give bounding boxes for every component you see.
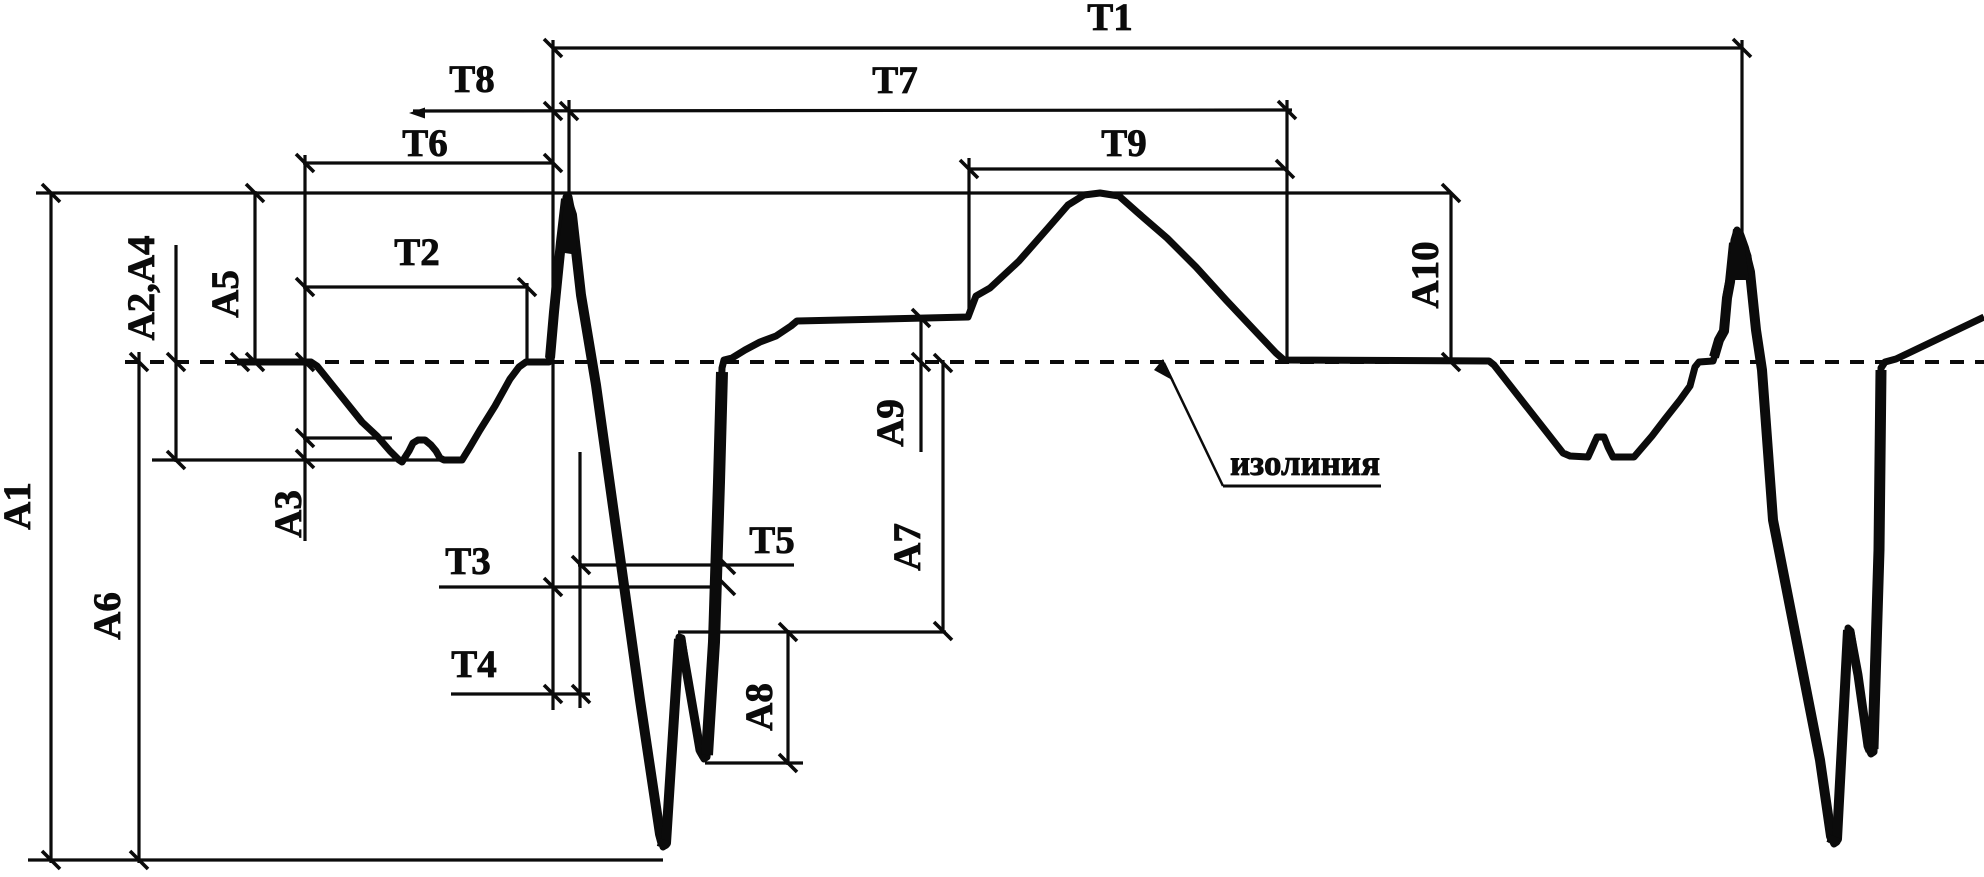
tick trace start <box>231 353 249 371</box>
labels rotated <box>0 235 1447 730</box>
extension line T2 right x=527 <box>525 283 528 359</box>
thick overlay: R1 upstroke <box>550 199 566 358</box>
svg-text:Т5: Т5 <box>749 519 795 562</box>
tick A10 <box>1442 184 1460 202</box>
tick T2 ends <box>296 278 314 296</box>
tick T4 ends <box>544 685 562 703</box>
dimension line A2,A4 <box>174 245 177 462</box>
dimension line T3 <box>439 585 710 588</box>
thick overlay: S1 rise to R' <box>664 639 679 845</box>
tick T1 right <box>1733 39 1751 57</box>
svg-text:Т9: Т9 <box>1101 122 1147 165</box>
svg-text:изолиния: изолиния <box>1230 443 1380 483</box>
tick A6 top & bottom <box>130 353 148 371</box>
dimension line A9 <box>919 317 922 452</box>
dimension line A5 <box>253 191 256 364</box>
tick T3 ends <box>544 578 562 596</box>
tick A9 <box>912 309 930 327</box>
svg-text:А10: А10 <box>1404 241 1447 308</box>
svg-text:Т3: Т3 <box>445 540 491 583</box>
bottom reference line <box>28 858 663 861</box>
dimension line A6 <box>137 352 140 863</box>
svg-text:Т1: Т1 <box>1087 0 1133 39</box>
dimension line A8 <box>786 630 789 765</box>
dimension line T6 <box>303 161 553 164</box>
leader underline <box>1223 485 1381 488</box>
dimension line A10 <box>1449 193 1452 360</box>
svg-text:Т8: Т8 <box>449 58 495 101</box>
reference line A8 top / A7 bottom <box>678 630 946 633</box>
dimension line T4 <box>451 692 590 695</box>
reference line A3 notch level <box>303 436 392 439</box>
svg-text:А7: А7 <box>886 523 929 571</box>
tick A5 top & bottom <box>246 184 264 202</box>
S2 trough flat tip <box>1828 838 1838 842</box>
svg-text:А5: А5 <box>204 270 247 318</box>
dimension line T1 <box>553 46 1742 49</box>
leader line izoliniya <box>1164 363 1223 486</box>
isoline dashed baseline <box>125 360 1984 364</box>
dimension line A3 <box>303 155 306 541</box>
extension line R peak x=569 <box>567 100 570 215</box>
svg-text:А1: А1 <box>0 482 39 530</box>
svg-text:А9: А9 <box>869 399 912 447</box>
dimension line T2 <box>303 285 528 288</box>
dimension line T9 <box>969 167 1285 170</box>
thick overlay: fall to notch2 <box>1850 632 1870 751</box>
ECG waveform trace <box>237 193 1984 847</box>
arrowhead T8 left <box>409 108 425 119</box>
thick overlay: R' fall to notch <box>681 640 704 757</box>
thick overlay: notch2 rise bar <box>1873 370 1881 749</box>
top reference line A-levels <box>36 191 1451 194</box>
thick overlay: notch rise bar <box>707 372 722 755</box>
extension line R end x=580 <box>578 452 581 708</box>
dimension line A7 <box>941 360 944 633</box>
thick overlay: R2 upstroke <box>1714 243 1734 357</box>
extension line R onset x=553 <box>551 40 554 710</box>
leader arrowhead <box>1154 359 1174 381</box>
extension line T7/T9 right x=1287 <box>1285 100 1288 360</box>
tick A3 line crossings <box>296 353 314 371</box>
dimension line T5 <box>578 563 794 566</box>
reference line P-wave bottom <box>152 458 462 461</box>
svg-text:А8: А8 <box>738 683 781 731</box>
R2 peak solid fill <box>1727 229 1749 280</box>
tick T6 ends <box>296 154 314 172</box>
labels horizontal <box>394 0 1380 686</box>
svg-text:Т7: Т7 <box>872 59 918 102</box>
svg-text:Т2: Т2 <box>394 231 440 274</box>
tick T5 ends <box>572 556 590 574</box>
tick A8 <box>779 623 797 641</box>
extension line T1 right x=1742 <box>1740 40 1743 237</box>
dimension line A1 <box>49 193 52 863</box>
tick A7 <box>934 354 952 372</box>
extension line T9 left x=969 <box>967 158 970 317</box>
R1 peak solid fill <box>558 196 578 255</box>
thick overlay: S2 rise <box>1835 630 1848 841</box>
tick T7 right <box>1278 101 1296 119</box>
tick A2A4 at baseline & bottom <box>167 353 185 371</box>
S1 trough flat tip <box>658 842 668 845</box>
svg-text:Т6: Т6 <box>402 122 448 165</box>
tick A1 top & bottom <box>42 184 60 202</box>
svg-text:А3: А3 <box>267 490 310 538</box>
dimension line T8/T7 <box>413 110 1292 111</box>
svg-text:А6: А6 <box>86 592 129 640</box>
svg-text:Т4: Т4 <box>451 643 497 686</box>
thick overlay: R2 downstroke <box>1739 234 1833 841</box>
thick overlay: R1 downstroke <box>567 200 663 845</box>
svg-text:А2,А4: А2,А4 <box>120 235 163 340</box>
tick T8 end / T7 start <box>544 102 562 120</box>
tick T1 left <box>544 39 562 57</box>
reference line A8 bottom <box>705 761 803 764</box>
tick T9 ends <box>960 160 978 178</box>
